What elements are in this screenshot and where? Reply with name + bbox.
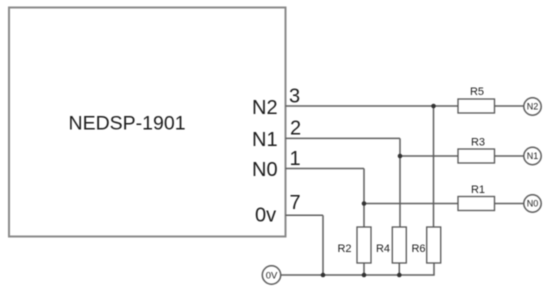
svg-text:R6: R6 bbox=[411, 243, 425, 255]
junction dot rail R4 bbox=[397, 273, 402, 278]
wire R2 bottom stub bbox=[363, 263, 365, 275]
svg-text:R5: R5 bbox=[470, 86, 484, 98]
wire R3 to terminal N1 bbox=[495, 155, 525, 157]
wire R1 to terminal N0 bbox=[495, 203, 525, 205]
terminal 0V bbox=[262, 266, 280, 284]
wire pin7 0v horizontal bbox=[286, 214, 324, 216]
svg-text:R4: R4 bbox=[376, 243, 390, 255]
resistor R4 body bbox=[392, 227, 406, 263]
wire pin2 N1 horizontal bbox=[286, 137, 401, 139]
resistor R3 body bbox=[458, 149, 495, 163]
wire R4 bottom stub bbox=[398, 263, 400, 275]
svg-text:0v: 0v bbox=[255, 205, 276, 227]
svg-text:N2: N2 bbox=[527, 102, 539, 112]
wire N0 branch to R1 bbox=[364, 203, 458, 205]
terminal N0 bbox=[524, 195, 541, 212]
junction dot rail pin7 bbox=[321, 273, 326, 278]
svg-text:R2: R2 bbox=[337, 243, 351, 255]
wire R5 to terminal N2 bbox=[495, 105, 525, 107]
svg-text:7: 7 bbox=[290, 192, 301, 214]
svg-text:N1: N1 bbox=[252, 129, 278, 151]
wire pin7 0v vertical drop bbox=[322, 215, 324, 275]
terminal N1 bbox=[524, 147, 541, 164]
junction dot N0/R1 bbox=[362, 201, 367, 206]
wire N1 vertical drop to R4 bbox=[399, 138, 401, 227]
terminal N2 bbox=[524, 98, 541, 115]
svg-text:N1: N1 bbox=[527, 151, 539, 161]
wire N1 branch to R3 bbox=[400, 155, 458, 157]
svg-text:N0: N0 bbox=[527, 199, 539, 209]
wire pin3 N2 horizontal bbox=[286, 105, 459, 107]
wire N2 vertical drop to R6 bbox=[433, 106, 435, 227]
svg-text:N0: N0 bbox=[252, 159, 278, 181]
svg-text:0V: 0V bbox=[266, 270, 278, 281]
svg-text:3: 3 bbox=[289, 86, 300, 108]
IC U1 NEDSP-1901 body bbox=[9, 8, 286, 237]
svg-text:R1: R1 bbox=[471, 184, 485, 196]
wire pin1 N0 horizontal bbox=[286, 168, 365, 170]
svg-text:NEDSP-1901: NEDSP-1901 bbox=[69, 113, 186, 135]
svg-text:N2: N2 bbox=[252, 97, 278, 119]
resistor R6 body bbox=[427, 227, 441, 263]
junction dot rail R2 bbox=[362, 273, 367, 278]
junction dot N1/R3 bbox=[398, 154, 403, 159]
svg-text:2: 2 bbox=[290, 118, 301, 140]
wire ground rail bbox=[281, 264, 434, 276]
wire N0 vertical drop to R2 bbox=[363, 169, 365, 228]
svg-text:R3: R3 bbox=[471, 137, 485, 149]
svg-text:1: 1 bbox=[290, 148, 301, 170]
junction dot N2/R6 bbox=[431, 104, 436, 109]
resistor R5 body bbox=[458, 99, 495, 113]
resistor R2 body bbox=[357, 227, 371, 263]
resistor R1 body bbox=[458, 197, 495, 211]
